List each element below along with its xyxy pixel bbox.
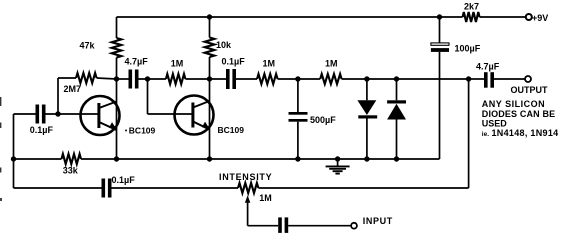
wire ground rail main segment (81, 158, 440, 160)
wire C1 to Q1 base (46, 113, 99, 115)
wire feedback row left segment (14, 187, 102, 189)
svg-text:BC109: BC109 (129, 126, 156, 136)
wire 500uF bottom lead (297, 122, 299, 159)
resistor R7 33k (62, 154, 82, 176)
wire output feedback vertical (468, 79, 470, 188)
svg-text:USED: USED (482, 119, 508, 129)
node rail junction at 100uF (437, 14, 442, 19)
svg-text:47k: 47k (80, 41, 96, 51)
svg-text:0.1µF: 0.1µF (30, 125, 54, 135)
node 500uF top junction (295, 76, 300, 81)
svg-text:4.7µF: 4.7µF (476, 62, 500, 72)
node rail junction at 10k (207, 14, 212, 19)
svg-text:33k: 33k (63, 166, 79, 176)
wire ground rail left segment (14, 158, 62, 160)
node C2 output junction (145, 76, 150, 81)
node Q1 emitter junction (114, 156, 119, 161)
resistor R3 1M (166, 59, 186, 85)
svg-text:100µF: 100µF (455, 44, 481, 54)
wire 500uF top lead (297, 79, 299, 112)
svg-text:+9V: +9V (532, 13, 548, 23)
wire top rail right segment to +9V terminal (480, 16, 526, 18)
capacitor C6 100uF (431, 43, 481, 54)
transistor Q1 BC109 (81, 96, 156, 136)
node Q1 collector junction (114, 76, 119, 81)
ground (326, 159, 350, 174)
resistor R5 1M (257, 59, 278, 85)
svg-text:1M: 1M (259, 193, 272, 203)
resistor R8 2k7 (463, 1, 480, 22)
svg-text:500µF: 500µF (310, 115, 336, 125)
potentiometer wiper arrow (245, 195, 250, 225)
wire 47k upper lead from rail (116, 17, 118, 38)
wire C4 to intensity pot (112, 187, 239, 189)
node output junction (466, 76, 471, 81)
wire D2 node to output node (crosses 100uF lead) (397, 78, 469, 80)
wire D1 node to D2 node (367, 78, 397, 80)
svg-text:ANY SILICON: ANY SILICON (482, 99, 545, 109)
capacitor C7 4.7uF output (476, 62, 500, 88)
node 2M7 drop junction on Q1 base wire (55, 111, 60, 116)
potentiometer VR1 1M INTENSITY (219, 172, 272, 203)
node D1 bottom junction (364, 156, 369, 161)
svg-text:1M: 1M (171, 59, 184, 69)
wire pot right lead to output feedback vertical (258, 187, 468, 189)
svg-text:0.1µF: 0.1µF (112, 175, 136, 185)
terminal OUTPUT (511, 76, 549, 95)
wire C2 to R3 (139, 78, 166, 80)
node ground junction (335, 156, 340, 161)
node Q2 emitter junction (207, 156, 212, 161)
svg-text:10k: 10k (216, 40, 232, 50)
svg-text:2M7: 2M7 (64, 84, 82, 94)
capacitor C8 input coupling (278, 217, 288, 233)
wire Q2 collector node to C3 (210, 78, 227, 80)
wire R5 to 500uF node (278, 78, 298, 80)
wire 10k upper lead from rail (209, 17, 211, 38)
wire left node to C1 (14, 113, 36, 115)
svg-text:BC109: BC109 (218, 125, 245, 135)
scan artifact marks left edge (0, 97, 2, 201)
wire input capacitor to input terminal (288, 225, 351, 227)
diode D1 (357, 79, 377, 159)
node 500uF bottom junction (295, 156, 300, 161)
wire wiper to input capacitor (248, 225, 279, 227)
svg-text:DIODES CAN BE: DIODES CAN BE (482, 109, 555, 119)
svg-text:INPUT: INPUT (363, 216, 393, 226)
wire R6 to diode D1 node (342, 78, 367, 80)
wire C3 to R5 (236, 78, 257, 80)
wire 100uF bottom lead down to ground rail (439, 52, 441, 159)
capacitor C1 0.1uF input (30, 105, 54, 136)
node Q2 collector junction (207, 76, 212, 81)
wire 2M7 left lead vertical drop (57, 78, 59, 114)
wire 2M7 right lead to Q1 collector node (97, 78, 117, 79)
wire C7 to output terminal (494, 78, 525, 80)
svg-text:2k7: 2k7 (464, 1, 479, 11)
node D2 top junction (394, 76, 399, 81)
svg-text:1N4148, 1N914: 1N4148, 1N914 (492, 128, 559, 138)
wire 100uF top lead (439, 17, 441, 43)
node D1 top junction (364, 76, 369, 81)
wire left vertical (input node) (13, 114, 15, 188)
svg-text:1M: 1M (325, 59, 338, 69)
note any silicon diodes (482, 99, 559, 138)
resistor R2 2M7 (64, 73, 97, 94)
terminal +9V (526, 13, 548, 23)
wire +9V top rail (117, 16, 463, 18)
svg-text:ie.: ie. (482, 131, 489, 138)
node left feedback junction (11, 156, 16, 161)
wire 2M7 left lead (58, 77, 76, 79)
resistor R1 47k (80, 38, 122, 58)
wire node down to Q2 base (148, 79, 194, 114)
wire Q1 collector vertical (116, 58, 118, 160)
resistor R6 1M (320, 59, 341, 85)
node D2 bottom junction (394, 156, 399, 161)
capacitor C3 0.1uF (222, 57, 246, 90)
capacitor C5 500uF (289, 112, 337, 125)
transistor Q2 BC109 (175, 96, 245, 136)
svg-text:INTENSITY: INTENSITY (219, 172, 272, 182)
resistor R4 10k (205, 38, 232, 58)
capacitor C4 0.1uF feedback (102, 175, 136, 198)
svg-text:1M: 1M (263, 59, 276, 69)
wire node to R6 (298, 78, 320, 80)
svg-text:OUTPUT: OUTPUT (511, 85, 549, 95)
wire Q1 collector node to C2 (117, 78, 129, 80)
wire output node to C7 (469, 78, 484, 80)
capacitor C2 4.7uF (125, 57, 149, 89)
wire Q2 collector vertical (209, 57, 211, 159)
terminal INPUT (351, 216, 393, 228)
svg-text:4.7µF: 4.7µF (125, 57, 149, 67)
diode D2 (387, 79, 406, 159)
svg-text:0.1µF: 0.1µF (222, 57, 246, 67)
wire R3 to Q2 collector node (185, 78, 209, 80)
